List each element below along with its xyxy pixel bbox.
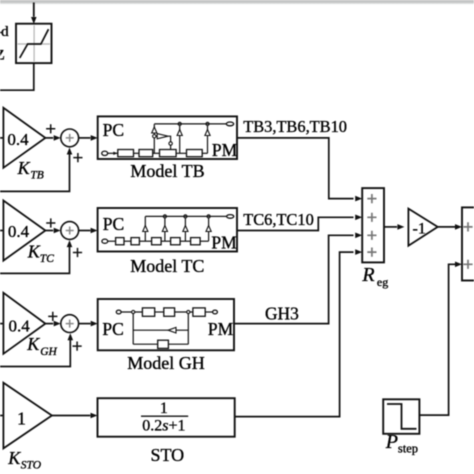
TC internal chain (108, 240, 116, 242)
wire -1 to output sum (438, 226, 456, 228)
svg-text:Model TC: Model TC (130, 256, 204, 276)
svg-text:K: K (26, 334, 40, 354)
wire STO output to R_eg input 4 (235, 252, 354, 417)
gain K_GH (3, 293, 45, 354)
wire dead zone output (0, 63, 34, 90)
svg-text:0.4: 0.4 (7, 130, 29, 149)
gain K_TC (3, 201, 45, 261)
svg-text:TB3,TB6,TB10: TB3,TB6,TB10 (243, 117, 347, 136)
plus sign input 2 (73, 342, 82, 351)
sum S1 (61, 129, 79, 147)
wire sum to Model TC (79, 230, 91, 232)
GH internal bottom feedback with block (133, 343, 188, 345)
TB riser A with tap (153, 124, 155, 153)
block P_step (383, 399, 419, 434)
TC internal port in (102, 239, 108, 243)
wire P_step to output sum input 2 (419, 264, 455, 415)
svg-text:R: R (361, 264, 374, 286)
wire gain to sum (45, 137, 53, 139)
wire TC output to R_eg input 2 (237, 217, 354, 230)
svg-text:Model GH: Model GH (127, 353, 205, 373)
wire sum to Model GH (79, 323, 91, 325)
plus sign input 1 (46, 218, 55, 227)
svg-text:TB: TB (30, 170, 43, 182)
TB riser C (207, 124, 209, 153)
gain K_TB (3, 108, 45, 168)
svg-text:0.4: 0.4 (8, 222, 30, 241)
wire input K_TC (0, 230, 3, 232)
svg-text:GH3: GH3 (265, 303, 299, 323)
wire R_eg to gain -1 (384, 226, 397, 228)
plus sign input 1 (48, 312, 57, 321)
wire gain to STO (52, 415, 90, 417)
plus sign input 1 (46, 124, 55, 133)
svg-text:PC: PC (102, 319, 123, 339)
dead-zone curve (20, 29, 49, 58)
output sum block (clipped at right edge) (462, 207, 474, 280)
TC risers (144, 216, 146, 241)
svg-text:K: K (27, 242, 41, 262)
gain -1 (408, 209, 437, 246)
svg-text:0.2s+1: 0.2s+1 (142, 417, 185, 434)
svg-text:0.4: 0.4 (9, 317, 31, 336)
wire input K_STO (0, 415, 3, 417)
svg-text:step: step (398, 442, 418, 456)
wire input K_TB (0, 137, 3, 139)
svg-text:P: P (385, 431, 398, 453)
TB riser B (179, 124, 181, 153)
wire feedback into S3 (0, 338, 70, 366)
svg-text:-1: -1 (413, 221, 426, 238)
sum S3 (61, 315, 79, 333)
wire gain to sum (45, 230, 53, 232)
wire sum to Model TB (79, 137, 91, 139)
svg-text:K: K (17, 158, 31, 178)
svg-text:Model TB: Model TB (130, 161, 204, 181)
svg-text:eg: eg (377, 275, 388, 289)
wire feedback into S2 (0, 245, 70, 273)
dead-zone block DZ (16, 24, 52, 63)
wire TB output to R_eg input 1 (237, 138, 354, 199)
sum S2 (61, 222, 79, 240)
svg-text:K: K (7, 448, 21, 468)
wire gain to sum (45, 323, 53, 325)
svg-text:PM: PM (212, 140, 238, 160)
block R_eg (362, 188, 384, 262)
step waveform (387, 404, 417, 429)
svg-text:1: 1 (17, 408, 26, 428)
block Model TB (98, 116, 237, 159)
svg-text:TC: TC (40, 253, 54, 265)
block Model TC (98, 208, 237, 252)
svg-text:PC: PC (103, 120, 124, 140)
plus sign input 2 (73, 153, 82, 162)
svg-text:PC: PC (103, 214, 124, 234)
TB top line + port out (154, 123, 226, 125)
GH internal mid feedback with left gain (133, 329, 188, 331)
GH internal verticals (133, 314, 188, 345)
GH internal top chain (116, 310, 121, 314)
TC top line + port out (145, 215, 226, 217)
wire input K_GH (0, 323, 3, 325)
wire feedback into S1 (0, 153, 70, 192)
svg-text:STO: STO (21, 460, 42, 472)
block STO transfer function (98, 398, 235, 437)
svg-text:GH: GH (40, 346, 57, 358)
gain K_STO (3, 383, 52, 449)
svg-text:TC6,TC10: TC6,TC10 (243, 210, 314, 229)
svg-text:PM: PM (211, 232, 237, 252)
TB internal port in (102, 151, 108, 155)
wire into dead zone (33, 3, 35, 17)
svg-text:1: 1 (160, 400, 168, 417)
block Model GH (98, 299, 234, 350)
svg-text:STO: STO (150, 445, 184, 465)
dead-zone axes (18, 25, 50, 61)
wire GH output to R_eg input 3 (234, 235, 354, 323)
svg-text:PM: PM (208, 319, 234, 339)
svg-text:z: z (0, 43, 5, 65)
TB internal chain (108, 152, 118, 154)
plus sign input 2 (73, 248, 82, 257)
